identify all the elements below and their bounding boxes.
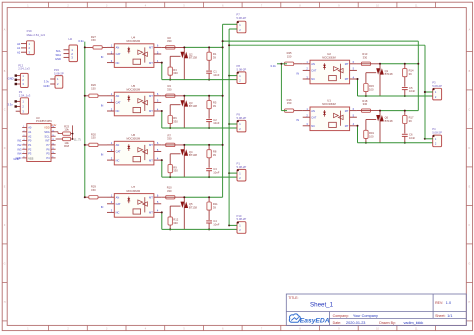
svg-text:AN: AN bbox=[116, 94, 120, 98]
svg-text:11: 11 bbox=[52, 148, 54, 150]
svg-text:A1: A1 bbox=[17, 46, 21, 50]
svg-text:CAT: CAT bbox=[116, 52, 121, 56]
svg-text:330: 330 bbox=[173, 169, 178, 173]
wire bus B (left column) bbox=[228, 29, 230, 225]
svg-text:SCL: SCL bbox=[45, 134, 51, 138]
svg-text:U6: U6 bbox=[131, 133, 135, 137]
wire pin6 row bbox=[161, 95, 222, 97]
svg-text:A0: A0 bbox=[28, 126, 32, 130]
svg-text:Your Company: Your Company bbox=[353, 314, 378, 318]
svg-text:P5: P5 bbox=[46, 152, 50, 156]
resistor R10 330 bbox=[166, 186, 175, 199]
svg-text:150: 150 bbox=[287, 101, 292, 105]
svg-text:U7: U7 bbox=[131, 185, 135, 189]
wire pin4 to bottom bus bbox=[161, 62, 163, 80]
opto-triac U1 MOC3063M bbox=[303, 99, 357, 131]
svg-text:CAT: CAT bbox=[311, 69, 316, 73]
svg-text:U5: U5 bbox=[131, 84, 135, 88]
svg-text:150: 150 bbox=[91, 86, 96, 90]
junction 3.3v bus tap bbox=[84, 46, 86, 48]
svg-text:3.3v: 3.3v bbox=[8, 102, 14, 106]
svg-text:R14: R14 bbox=[409, 69, 414, 73]
svg-text:330: 330 bbox=[167, 137, 172, 141]
svg-text:BT138: BT138 bbox=[385, 72, 393, 76]
svg-text:9: 9 bbox=[52, 157, 53, 159]
svg-text:MT: MT bbox=[149, 109, 153, 113]
svg-text:P3: P3 bbox=[28, 152, 32, 156]
svg-text:A0: A0 bbox=[17, 42, 21, 46]
svg-text:3.3v: 3.3v bbox=[78, 39, 84, 43]
svg-text:AN: AN bbox=[116, 143, 120, 147]
svg-text:Drawn By:: Drawn By: bbox=[379, 321, 396, 325]
svg-text:CAT: CAT bbox=[116, 150, 121, 154]
wire pin4 to bottom bus bbox=[161, 159, 163, 177]
svg-text:C: C bbox=[469, 108, 471, 111]
svg-text:CAT: CAT bbox=[116, 202, 121, 206]
triac Q4 BT138 bbox=[181, 144, 198, 177]
resistor R23 10k bbox=[56, 124, 71, 135]
net label IN bbox=[101, 153, 104, 157]
wire pin4 to bottom bus bbox=[161, 110, 163, 128]
resistor R11 39 bbox=[207, 196, 218, 220]
svg-text:C5: C5 bbox=[409, 86, 413, 90]
svg-text:P1: P1 bbox=[28, 143, 32, 147]
svg-text:R6: R6 bbox=[173, 116, 177, 120]
svg-text:330: 330 bbox=[363, 102, 368, 106]
svg-text:1/1: 1/1 bbox=[447, 314, 452, 318]
triac Q3 BT138 bbox=[181, 95, 198, 128]
svg-text:SDA: SDA bbox=[55, 53, 61, 57]
wire bottom bus bbox=[162, 176, 238, 178]
svg-text:GND: GND bbox=[13, 157, 19, 161]
svg-text:P7: P7 bbox=[46, 143, 50, 147]
wire pin6 row bbox=[161, 46, 222, 48]
wire top horizontal B to right column bbox=[228, 44, 426, 139]
svg-text:MT: MT bbox=[149, 61, 153, 65]
opto-triac U7 MOC3063M bbox=[107, 185, 161, 217]
svg-text:INT: INT bbox=[45, 139, 50, 143]
svg-text:BT138: BT138 bbox=[385, 119, 393, 123]
svg-text:VDD: VDD bbox=[44, 126, 50, 130]
svg-text:A1: A1 bbox=[28, 130, 32, 134]
svg-text:MT: MT bbox=[149, 94, 153, 98]
svg-text:CAT: CAT bbox=[116, 101, 121, 105]
svg-text:39: 39 bbox=[213, 153, 216, 157]
opto-triac U6 MOC3063M bbox=[107, 133, 161, 165]
svg-text:1: 1 bbox=[23, 126, 24, 128]
svg-text:7: 7 bbox=[23, 152, 24, 154]
net label IN bbox=[101, 103, 104, 107]
resistor R16 150 bbox=[285, 98, 303, 112]
svg-text:AN: AN bbox=[311, 62, 315, 66]
svg-text:MOC3063M: MOC3063M bbox=[322, 103, 335, 106]
svg-text:G: G bbox=[4, 262, 6, 265]
wire bottom bus bbox=[358, 142, 434, 144]
svg-text:EasyEDA: EasyEDA bbox=[300, 317, 330, 324]
svg-text:2020-01-23: 2020-01-23 bbox=[346, 321, 365, 325]
opto-triac U2 MOC3063M bbox=[303, 52, 357, 84]
wire pin6 row bbox=[161, 196, 222, 198]
svg-text:10: 10 bbox=[52, 152, 54, 154]
net label IN bbox=[296, 118, 299, 122]
svg-text:R11: R11 bbox=[213, 202, 218, 206]
svg-text:2.54_1x3: 2.54_1x3 bbox=[19, 93, 31, 97]
wire 3.3v right feed bbox=[277, 63, 287, 111]
svg-text:5.08-2P: 5.08-2P bbox=[237, 217, 247, 221]
svg-text:10nF: 10nF bbox=[213, 121, 219, 125]
wire pin6 row bbox=[357, 110, 418, 112]
svg-text:IN2: IN2 bbox=[17, 143, 22, 147]
resistor R12 330 (gate) bbox=[168, 206, 181, 230]
resistor R9 330 (gate) bbox=[168, 154, 181, 178]
svg-text:MT: MT bbox=[149, 158, 153, 162]
svg-text:39: 39 bbox=[409, 119, 412, 123]
net label 3.3v (left bus) bbox=[78, 39, 84, 43]
svg-text:AN: AN bbox=[116, 46, 120, 50]
connector P12 2.54_1x3 bbox=[8, 63, 31, 87]
svg-text:39: 39 bbox=[409, 72, 412, 76]
resistor R2 330 bbox=[166, 36, 175, 49]
wire pullups to 3.3v bbox=[71, 125, 74, 140]
svg-text:PCF8574PN: PCF8574PN bbox=[36, 119, 52, 123]
opto-triac U5 MOC3063M bbox=[107, 84, 161, 116]
svg-text:MT: MT bbox=[345, 109, 349, 113]
connector P19 Male 2.54_1x3 bbox=[17, 29, 45, 55]
junction 3.3v bus tap bbox=[84, 144, 86, 146]
svg-text:D: D bbox=[4, 147, 6, 150]
capacitor C2 10nF bbox=[206, 118, 220, 129]
triac Q5 BT138 bbox=[181, 196, 198, 229]
EasyEDA logo bbox=[289, 314, 329, 324]
svg-text:5.08-2P: 5.08-2P bbox=[54, 71, 64, 75]
svg-text:Sheet_1: Sheet_1 bbox=[310, 302, 334, 309]
capacitor C4 10nF bbox=[206, 219, 220, 230]
connector P2 2.54_1x3 bbox=[8, 90, 31, 114]
svg-text:Sheet:: Sheet: bbox=[435, 314, 445, 318]
svg-text:14: 14 bbox=[52, 135, 54, 137]
svg-text:NC: NC bbox=[116, 109, 120, 113]
svg-text:10nF: 10nF bbox=[409, 89, 415, 93]
svg-text:3.3v: 3.3v bbox=[51, 123, 57, 127]
capacitor C5 10nF bbox=[402, 86, 416, 97]
svg-text:3: 3 bbox=[23, 135, 24, 137]
connector P3 5.08-2P bbox=[424, 80, 442, 100]
triac Q6 BT138 bbox=[376, 110, 393, 143]
svg-text:4: 4 bbox=[23, 139, 24, 141]
junction bus A bbox=[222, 95, 224, 97]
wire pin4 to bottom bus bbox=[161, 211, 163, 229]
svg-text:IN1: IN1 bbox=[17, 139, 22, 143]
junction bus A bbox=[222, 144, 224, 146]
svg-text:100: 100 bbox=[369, 134, 374, 138]
svg-text:8: 8 bbox=[23, 157, 24, 159]
svg-text:D: D bbox=[469, 147, 471, 150]
svg-text:5.08-2P: 5.08-2P bbox=[237, 67, 247, 71]
svg-text:C4: C4 bbox=[213, 219, 217, 223]
svg-text:R9: R9 bbox=[173, 165, 177, 169]
svg-text:U2: U2 bbox=[327, 52, 331, 56]
svg-text:BT138: BT138 bbox=[189, 104, 197, 108]
resistor R18 330 bbox=[361, 99, 370, 112]
svg-text:5.08-2P: 5.08-2P bbox=[432, 131, 442, 135]
resistor R3 330 (gate) bbox=[168, 56, 181, 80]
resistor R20 150 bbox=[85, 132, 107, 146]
svg-text:R18: R18 bbox=[64, 144, 69, 148]
svg-text:SDA: SDA bbox=[44, 130, 50, 134]
resistor R17 39 bbox=[403, 110, 414, 134]
svg-text:U4: U4 bbox=[131, 35, 135, 39]
svg-text:C: C bbox=[4, 108, 6, 111]
svg-text:CAT: CAT bbox=[311, 115, 316, 119]
svg-text:Date:: Date: bbox=[333, 321, 342, 325]
svg-text:150: 150 bbox=[287, 54, 292, 58]
svg-text:R17: R17 bbox=[409, 115, 414, 119]
capacitor C6 10nF bbox=[402, 133, 416, 144]
net label IN bbox=[296, 71, 299, 75]
svg-text:H: H bbox=[469, 301, 471, 304]
svg-text:39: 39 bbox=[213, 205, 216, 209]
junction bus A bbox=[222, 46, 224, 48]
capacitor C1 10nF bbox=[206, 69, 220, 80]
svg-text:Male 2.54_1x3: Male 2.54_1x3 bbox=[27, 33, 46, 37]
svg-text:C2: C2 bbox=[213, 118, 217, 122]
wire top horizontal A to right column bbox=[222, 40, 420, 111]
resistor R15 100 (gate) bbox=[364, 73, 377, 97]
svg-text:MT: MT bbox=[345, 124, 349, 128]
svg-text:12: 12 bbox=[52, 144, 54, 146]
net label IN bbox=[101, 55, 104, 59]
connector P15 5.08-2P bbox=[43, 68, 64, 88]
svg-text:TITLE:: TITLE: bbox=[288, 296, 298, 300]
svg-text:330: 330 bbox=[167, 87, 172, 91]
net label 3.3v (U3 VDD) bbox=[51, 123, 57, 127]
opto-triac U4 MOC3063M bbox=[107, 35, 161, 67]
svg-text:GND: GND bbox=[8, 76, 14, 80]
svg-text:5.08-2P: 5.08-2P bbox=[237, 165, 247, 169]
svg-text:5.08-2P: 5.08-2P bbox=[432, 84, 442, 88]
svg-text:330: 330 bbox=[173, 120, 178, 124]
svg-text:IN: IN bbox=[101, 205, 104, 209]
svg-text:330: 330 bbox=[173, 221, 178, 225]
svg-text:GND: GND bbox=[43, 84, 49, 88]
resistor R8 39 bbox=[207, 144, 217, 168]
wire 3.3v vertical bus left bbox=[84, 42, 86, 198]
svg-text:2: 2 bbox=[23, 130, 24, 132]
svg-text:IN4: IN4 bbox=[17, 152, 22, 156]
resistor R27 150 bbox=[85, 35, 107, 49]
wire bus A (left column) bbox=[222, 24, 224, 197]
svg-text:5.08-2P: 5.08-2P bbox=[237, 116, 247, 120]
resistor R13 330 bbox=[361, 52, 370, 65]
svg-text:MOC3063M: MOC3063M bbox=[127, 190, 140, 193]
svg-text:vadim_kkkk: vadim_kkkk bbox=[404, 321, 424, 325]
svg-text:REV:: REV: bbox=[435, 301, 443, 305]
resistor R7 330 bbox=[166, 133, 175, 146]
svg-text:10nF: 10nF bbox=[213, 73, 219, 77]
wire bottom bus bbox=[162, 228, 238, 230]
IC U3 PCF8574PN bbox=[16, 116, 56, 162]
svg-text:MOC3063M: MOC3063M bbox=[127, 40, 140, 43]
svg-text:330: 330 bbox=[363, 55, 368, 59]
svg-text:GND: GND bbox=[55, 57, 61, 61]
resistor R14 39 bbox=[403, 63, 414, 87]
connector H2 bbox=[55, 37, 77, 62]
svg-text:330: 330 bbox=[173, 71, 178, 75]
svg-text:IN: IN bbox=[296, 118, 299, 122]
svg-text:330: 330 bbox=[167, 39, 172, 43]
svg-text:100: 100 bbox=[369, 88, 374, 92]
wire pin6 row bbox=[161, 144, 222, 146]
svg-text:G: G bbox=[468, 262, 470, 265]
resistor R4 330 bbox=[166, 84, 175, 97]
svg-text:5: 5 bbox=[23, 144, 24, 146]
resistor R6 330 (gate) bbox=[168, 105, 181, 129]
svg-text:A2: A2 bbox=[28, 134, 32, 138]
svg-text:MOC3063M: MOC3063M bbox=[127, 138, 140, 141]
resistor R5 39 bbox=[207, 95, 217, 119]
svg-text:MOC3063M: MOC3063M bbox=[322, 56, 335, 59]
title block texts bbox=[288, 296, 452, 325]
connector P1 5.08-2P bbox=[228, 162, 246, 182]
wire pin4 to bottom bus bbox=[357, 125, 359, 143]
connector P8 5.08-2P bbox=[228, 64, 246, 84]
wire bottom bus bbox=[162, 127, 238, 129]
svg-text:5.08-2P: 5.08-2P bbox=[236, 16, 246, 20]
svg-text:MT: MT bbox=[149, 46, 153, 50]
svg-text:MT: MT bbox=[149, 143, 153, 147]
svg-text:R8: R8 bbox=[213, 150, 217, 154]
svg-text:U1: U1 bbox=[327, 99, 331, 103]
svg-text:150: 150 bbox=[91, 136, 96, 140]
svg-text:A2: A2 bbox=[17, 50, 21, 54]
svg-text:10k: 10k bbox=[64, 127, 69, 131]
svg-text:SCL: SCL bbox=[56, 49, 62, 53]
svg-text:AN: AN bbox=[311, 109, 315, 113]
svg-text:39: 39 bbox=[213, 104, 216, 108]
svg-text:MT: MT bbox=[345, 62, 349, 66]
svg-text:3.3v: 3.3v bbox=[270, 64, 276, 68]
svg-text:MOC3063M: MOC3063M bbox=[127, 88, 140, 91]
svg-text:IN: IN bbox=[296, 71, 299, 75]
svg-text:6: 6 bbox=[23, 148, 24, 150]
junction 3.3v bus tap bbox=[84, 196, 86, 198]
svg-text:NC: NC bbox=[116, 211, 120, 215]
svg-text:AN: AN bbox=[116, 195, 120, 199]
svg-text:2.54_1x3: 2.54_1x3 bbox=[18, 67, 30, 71]
junction 3.3v bus tap bbox=[84, 95, 86, 97]
wire bottom bus bbox=[358, 95, 434, 97]
svg-text:NC: NC bbox=[311, 124, 315, 128]
svg-text:C6: C6 bbox=[409, 133, 413, 137]
svg-text:150: 150 bbox=[91, 188, 96, 192]
svg-text:BT138: BT138 bbox=[189, 56, 197, 60]
svg-text:C1: C1 bbox=[213, 69, 217, 73]
svg-text:VSS: VSS bbox=[28, 156, 33, 160]
bus label [1..7] bbox=[74, 138, 80, 142]
svg-text:P6: P6 bbox=[46, 147, 50, 151]
resistor R25 150 bbox=[285, 51, 303, 65]
triac Q1 BT138 bbox=[376, 63, 393, 96]
resistor R26 150 bbox=[85, 83, 107, 97]
connector P9 5.08-2P bbox=[228, 112, 246, 132]
svg-text:H2: H2 bbox=[69, 37, 73, 41]
svg-text:10nF: 10nF bbox=[213, 223, 219, 227]
svg-text:P0: P0 bbox=[28, 139, 32, 143]
wire pin6 row bbox=[357, 63, 418, 65]
triac Q2 BT138 bbox=[181, 46, 198, 79]
resistor R29 150 bbox=[85, 185, 107, 199]
svg-text:3.3v: 3.3v bbox=[44, 80, 50, 84]
svg-text:R3: R3 bbox=[173, 68, 177, 72]
svg-text:Company:: Company: bbox=[333, 314, 349, 318]
svg-text:P2: P2 bbox=[28, 147, 32, 151]
net label GND (U3 VSS) bbox=[13, 157, 19, 161]
svg-text:R5: R5 bbox=[213, 101, 217, 105]
svg-text:IN: IN bbox=[101, 55, 104, 59]
svg-text:BT138: BT138 bbox=[189, 153, 197, 157]
svg-text:NC: NC bbox=[116, 158, 120, 162]
svg-text:IN3: IN3 bbox=[17, 147, 22, 151]
net label IN bbox=[101, 205, 104, 209]
svg-text:10nF: 10nF bbox=[409, 136, 415, 140]
connector P10 5.08-2P bbox=[228, 214, 246, 234]
resistor R18 10k bbox=[56, 137, 71, 148]
svg-text:[1..7]: [1..7] bbox=[74, 138, 80, 142]
svg-text:MT: MT bbox=[345, 77, 349, 81]
wire bottom bus bbox=[162, 79, 238, 81]
svg-text:39: 39 bbox=[213, 56, 216, 60]
net label 3.3v (right) bbox=[270, 64, 276, 68]
svg-text:BT138: BT138 bbox=[189, 205, 197, 209]
svg-text:150: 150 bbox=[91, 38, 96, 42]
svg-text:MT: MT bbox=[149, 195, 153, 199]
svg-text:13: 13 bbox=[52, 139, 54, 141]
svg-text:R1: R1 bbox=[213, 52, 217, 56]
svg-text:10nF: 10nF bbox=[213, 170, 219, 174]
svg-text:C3: C3 bbox=[213, 167, 217, 171]
resistor R19 100 (gate) bbox=[364, 120, 377, 144]
title block bbox=[286, 294, 466, 325]
svg-text:MT: MT bbox=[149, 211, 153, 215]
connector P7 5.08-2P bbox=[223, 13, 247, 33]
svg-text:NC: NC bbox=[116, 61, 120, 65]
svg-text:15: 15 bbox=[52, 130, 54, 132]
svg-text:NC: NC bbox=[311, 77, 315, 81]
connector P4 5.08-2P bbox=[424, 127, 442, 147]
svg-text:R19: R19 bbox=[369, 131, 374, 135]
svg-text:330: 330 bbox=[167, 189, 172, 193]
svg-text:IN: IN bbox=[101, 153, 104, 157]
capacitor C3 10nF bbox=[206, 167, 220, 178]
svg-text:H: H bbox=[4, 301, 6, 304]
resistor R1 39 bbox=[207, 46, 217, 70]
svg-text:P4: P4 bbox=[46, 156, 50, 160]
svg-text:R15: R15 bbox=[369, 84, 374, 88]
wire pin4 to bottom bus bbox=[357, 78, 359, 96]
svg-text:1.0: 1.0 bbox=[446, 301, 451, 305]
svg-text:IN: IN bbox=[101, 103, 104, 107]
svg-text:R12: R12 bbox=[173, 218, 178, 222]
